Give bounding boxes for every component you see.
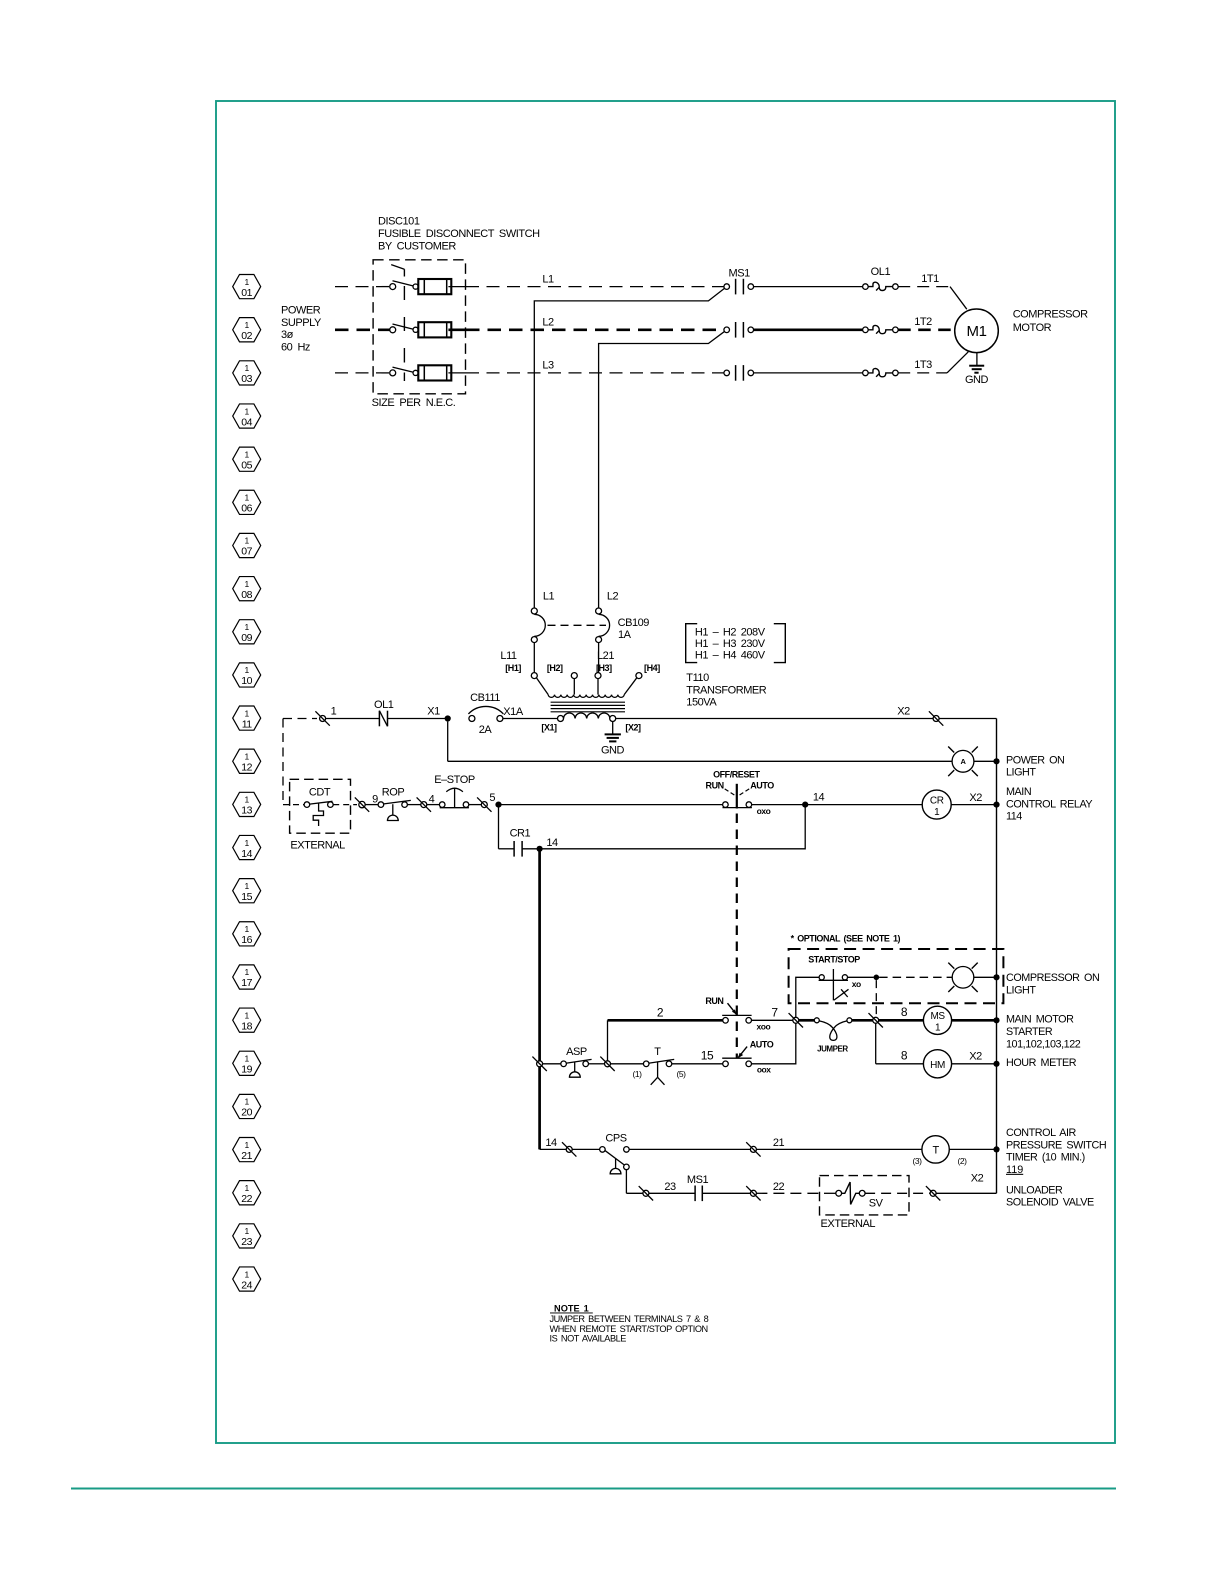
svg-text:03: 03 xyxy=(241,373,252,385)
wire MS1 coil to rail (bold) xyxy=(952,1019,997,1022)
svg-text:06: 06 xyxy=(241,503,252,515)
transformer T110 primary taps xyxy=(531,673,642,695)
wire MS1 aux to terminal 22 xyxy=(702,1192,750,1194)
wire row11 left entry (dashed) xyxy=(283,718,317,720)
node 1/16 line-number hexagon xyxy=(233,922,261,946)
circuit breaker CB111 xyxy=(468,692,503,736)
wire to CPS xyxy=(572,1148,599,1150)
svg-text:08: 08 xyxy=(241,589,252,601)
svg-text:13: 13 xyxy=(241,805,252,817)
svg-text:1: 1 xyxy=(245,449,250,459)
wire to external box (dashed) xyxy=(756,1192,822,1194)
svg-text:1: 1 xyxy=(331,705,337,717)
node row21 rail xyxy=(993,1146,999,1152)
svg-text:1: 1 xyxy=(245,924,250,934)
terminal 7 xyxy=(793,1017,799,1023)
wire to ROP xyxy=(365,804,378,806)
node 5 xyxy=(495,802,501,808)
node 1/15 line-number hexagon xyxy=(233,879,261,903)
label compressor motor xyxy=(1013,309,1088,335)
svg-text:14: 14 xyxy=(241,848,252,860)
wire terminal to rail row22 xyxy=(936,1192,996,1194)
node row19 rail xyxy=(993,1061,999,1067)
svg-text:L11: L11 xyxy=(500,650,517,662)
svg-text:POWER: POWER xyxy=(281,304,321,316)
node 1/07 line-number hexagon xyxy=(233,533,261,557)
wire CR1 to node xyxy=(522,848,540,850)
disconnect mechanical tie (dashed) xyxy=(403,269,405,381)
wire light to rail row17 xyxy=(974,976,997,978)
svg-text:8: 8 xyxy=(901,1048,908,1062)
wire tap L2 to transformer xyxy=(599,330,727,608)
jumper xyxy=(814,1018,852,1054)
disconnect blade L1 xyxy=(390,281,419,290)
svg-text:1: 1 xyxy=(245,967,250,977)
node 1/11 line-number hexagon xyxy=(233,706,261,730)
timer contact T xyxy=(632,1046,686,1085)
svg-text:1: 1 xyxy=(245,277,250,287)
wire selector to node 14 xyxy=(752,804,805,806)
contact MS1 aux (NO) xyxy=(687,1174,709,1201)
node 1/19 line-number hexagon xyxy=(233,1051,261,1075)
wire to HM coil xyxy=(876,1063,924,1065)
SV external box (dashed) xyxy=(820,1176,910,1215)
selector linkage (dashed) xyxy=(736,814,738,1059)
svg-text:1: 1 xyxy=(245,838,250,848)
svg-text:L1: L1 xyxy=(543,590,555,602)
selector contact AUTO (oox) xyxy=(722,1040,774,1075)
svg-text:START/STOP: START/STOP xyxy=(808,954,860,964)
wire to CR1 contact xyxy=(499,848,515,850)
svg-text:1: 1 xyxy=(245,751,250,761)
svg-text:E–STOP: E–STOP xyxy=(434,774,475,786)
label CB109 xyxy=(618,617,650,641)
label T110 transformer xyxy=(686,672,767,709)
svg-text:STARTER: STARTER xyxy=(1006,1026,1053,1038)
node 1/22 line-number hexagon xyxy=(233,1181,261,1205)
svg-text:24: 24 xyxy=(241,1279,252,1291)
svg-text:SUPPLY: SUPPLY xyxy=(281,317,322,329)
relay coil CR1 xyxy=(922,790,951,819)
svg-text:UNLOADER: UNLOADER xyxy=(1006,1184,1063,1196)
svg-text:X1A: X1A xyxy=(503,706,524,718)
node 1/21 line-number hexagon xyxy=(233,1138,261,1162)
svg-text:1: 1 xyxy=(245,881,250,891)
svg-text:AUTO: AUTO xyxy=(750,780,774,790)
svg-text:ROP: ROP xyxy=(382,787,405,799)
bold feeder from node 14 down xyxy=(538,849,541,1150)
node row12 rail xyxy=(993,758,999,764)
wire OL1 to X1 xyxy=(388,718,448,720)
label COMPRESSOR ON LIGHT xyxy=(1006,972,1099,996)
svg-text:GND: GND xyxy=(601,745,625,757)
svg-text:ASP: ASP xyxy=(566,1046,587,1058)
wire light to rail xyxy=(974,760,997,762)
motor M1 xyxy=(955,309,999,353)
terminal X2 row11 xyxy=(933,716,939,722)
svg-text:07: 07 xyxy=(241,546,252,558)
svg-text:20: 20 xyxy=(241,1107,252,1119)
wire L3 to MS1 (dashed) xyxy=(466,372,724,374)
solenoid SV xyxy=(824,1182,884,1209)
wire X1 node down to row12 xyxy=(447,722,449,762)
svg-text:LIGHT: LIGHT xyxy=(1006,767,1036,779)
fuse L3 xyxy=(418,365,466,380)
svg-text:MS1: MS1 xyxy=(687,1174,709,1186)
wire 1T1 slant into motor xyxy=(950,287,967,310)
label DISC101 fusible disconnect switch xyxy=(378,216,540,253)
svg-text:1: 1 xyxy=(245,1183,250,1193)
wire to terminal 23 xyxy=(626,1192,643,1194)
wire CPS lower throw down xyxy=(625,1170,627,1193)
wire to MS1 aux contact xyxy=(649,1192,695,1194)
terminal node before MS coil xyxy=(873,1017,879,1023)
pilot light power-on xyxy=(952,750,974,772)
svg-text:RUN: RUN xyxy=(706,780,724,790)
disconnect blade L2 xyxy=(390,324,419,333)
svg-text:AUTO: AUTO xyxy=(750,1040,774,1050)
svg-text:1A: 1A xyxy=(618,629,632,641)
svg-text:RUN: RUN xyxy=(705,996,723,1006)
wire 1T1 (dashed) xyxy=(898,286,950,288)
svg-text:MOTOR: MOTOR xyxy=(1013,322,1052,334)
svg-text:10: 10 xyxy=(241,675,252,687)
wire to timer contact xyxy=(611,1063,647,1065)
svg-text:7: 7 xyxy=(771,1005,778,1019)
svg-text:114: 114 xyxy=(1006,811,1022,823)
node 14 seal xyxy=(537,846,543,852)
terminal 9 xyxy=(355,793,378,812)
svg-text:2: 2 xyxy=(657,1006,664,1020)
wire to MS1 coil (bold) xyxy=(879,1019,924,1022)
wire HM to rail xyxy=(952,1063,997,1065)
terminal 5 xyxy=(477,792,495,812)
svg-text:HOUR METER: HOUR METER xyxy=(1006,1057,1077,1069)
node 1/05 line-number hexagon xyxy=(233,447,261,471)
wire HM branch riser xyxy=(875,1023,877,1064)
circuit breaker CB109 pole at x=534.3 xyxy=(531,608,545,673)
wire L1 to MS1 (dashed) xyxy=(466,286,724,288)
node 1/06 line-number hexagon xyxy=(233,490,261,514)
svg-text:X2: X2 xyxy=(971,1173,984,1185)
node row17 rail xyxy=(993,974,999,980)
svg-text:04: 04 xyxy=(241,416,252,428)
overload OL1 heater L1 xyxy=(863,266,899,290)
wire node14 to CR coil xyxy=(805,804,922,806)
wire timer coil to rail xyxy=(949,1148,996,1150)
wire L2 to MS1 (dashed) xyxy=(466,328,724,331)
wire tap L1 to transformer xyxy=(534,287,726,608)
wire CB111 to transformer X1 xyxy=(503,718,558,720)
wire row11-13 left riser (dashed) xyxy=(282,719,284,805)
svg-text:X2: X2 xyxy=(969,792,982,804)
wire AUTO up to node7 xyxy=(752,1023,796,1064)
svg-text:11: 11 xyxy=(242,718,253,730)
optional box (dashed) xyxy=(789,949,1004,1003)
svg-text:MS: MS xyxy=(930,1011,945,1022)
terminal 21 xyxy=(750,1146,756,1152)
svg-text:[H2]: [H2] xyxy=(547,663,563,673)
node row13 rail xyxy=(993,802,999,808)
circuit breaker CB109 pole at x=598.6 xyxy=(596,608,610,673)
starter coil MS1 xyxy=(923,1006,951,1034)
wire seal to node14 riser xyxy=(540,805,806,849)
svg-text:xoo: xoo xyxy=(757,1021,771,1031)
svg-text:1: 1 xyxy=(245,795,250,805)
svg-text:1: 1 xyxy=(245,320,250,330)
pushbutton E-STOP (NC) xyxy=(434,774,475,808)
svg-text:MS1: MS1 xyxy=(729,267,751,279)
svg-text:TRANSFORMER: TRANSFORMER xyxy=(686,684,767,696)
wire L1 supply dashes xyxy=(335,286,390,288)
voltage tap table xyxy=(686,624,786,663)
pressure switch ASP xyxy=(561,1046,592,1077)
note 1 text xyxy=(550,1304,709,1344)
svg-text:21: 21 xyxy=(241,1150,252,1162)
svg-text:(5): (5) xyxy=(676,1069,686,1079)
svg-text:oox: oox xyxy=(757,1065,771,1075)
svg-text:1T3: 1T3 xyxy=(914,359,932,371)
wire 1T3 slant into motor xyxy=(947,352,968,373)
svg-text:101,102,103,122: 101,102,103,122 xyxy=(1006,1038,1081,1050)
svg-text:12: 12 xyxy=(241,761,252,773)
svg-text:60 Hz: 60 Hz xyxy=(281,342,310,354)
node X1 xyxy=(445,715,451,721)
wire to timer coil xyxy=(756,1148,922,1150)
svg-text:CONTROL AIR: CONTROL AIR xyxy=(1006,1127,1076,1139)
overload OL1 heater L2 xyxy=(863,325,899,333)
svg-text:CB111: CB111 xyxy=(470,692,500,704)
wire node down to row18 (dashed) xyxy=(875,980,877,1017)
svg-text:1: 1 xyxy=(245,622,250,632)
svg-text:(3): (3) xyxy=(912,1156,922,1166)
svg-text:L2: L2 xyxy=(542,317,554,329)
svg-text:1: 1 xyxy=(245,1054,250,1064)
contactor MS1 power contact L3 xyxy=(724,365,863,381)
svg-text:(2): (2) xyxy=(957,1156,967,1166)
wire to ASP xyxy=(543,1063,561,1065)
wire timer to AUTO xyxy=(672,1063,723,1065)
node 1/14 line-number hexagon xyxy=(233,835,261,859)
svg-text:PRESSURE SWITCH: PRESSURE SWITCH xyxy=(1006,1139,1106,1151)
wire RUN to terminal 7 xyxy=(752,1019,793,1021)
svg-text:09: 09 xyxy=(241,632,252,644)
svg-text:1: 1 xyxy=(245,363,250,373)
svg-text:FUSIBLE DISCONNECT SWITCH: FUSIBLE DISCONNECT SWITCH xyxy=(378,228,540,240)
label MAIN CONTROL RELAY 114 xyxy=(1006,786,1092,822)
terminal 23 xyxy=(643,1190,649,1196)
wire to OL1 contact xyxy=(326,718,380,720)
wire ASP to terminal xyxy=(589,1063,605,1065)
svg-text:BY CUSTOMER: BY CUSTOMER xyxy=(378,240,456,252)
svg-text:02: 02 xyxy=(241,330,252,342)
node row18 rail xyxy=(993,1017,999,1023)
node 1/17 line-number hexagon xyxy=(233,965,261,989)
svg-text:L21: L21 xyxy=(597,650,614,662)
svg-text:2A: 2A xyxy=(479,724,493,736)
svg-text:21: 21 xyxy=(773,1137,785,1149)
terminal 22 xyxy=(750,1190,756,1196)
node 1/10 line-number hexagon xyxy=(233,663,261,687)
terminal 2-branch xyxy=(605,1061,611,1067)
wire L2 supply dashes xyxy=(335,328,390,331)
svg-text:JUMPER BETWEEN TERMINALS 7 & 8: JUMPER BETWEEN TERMINALS 7 & 8 xyxy=(550,1314,709,1324)
svg-text:OL1: OL1 xyxy=(871,266,891,278)
pressure switch CPS xyxy=(600,1133,630,1174)
svg-text:IS NOT AVAILABLE: IS NOT AVAILABLE xyxy=(550,1334,627,1344)
svg-text:L2: L2 xyxy=(607,590,619,602)
temperature switch CDT xyxy=(304,787,333,826)
footer separator line xyxy=(71,1488,1116,1490)
terminal 14 row21 xyxy=(566,1146,572,1152)
svg-text:COMPRESSOR ON: COMPRESSOR ON xyxy=(1006,972,1099,984)
svg-text:1T1: 1T1 xyxy=(921,273,939,285)
label power supply xyxy=(281,304,322,353)
svg-text:1: 1 xyxy=(245,1269,250,1279)
svg-text:14: 14 xyxy=(813,792,825,804)
svg-text:TIMER (10 MIN.): TIMER (10 MIN.) xyxy=(1006,1152,1085,1164)
node 1/12 line-number hexagon xyxy=(233,749,261,773)
node 1/08 line-number hexagon xyxy=(233,577,261,601)
CDT external box (dashed) xyxy=(290,779,351,833)
label POWER ON LIGHT xyxy=(1006,754,1064,778)
node 14 xyxy=(802,802,808,808)
svg-text:CONTROL RELAY: CONTROL RELAY xyxy=(1006,798,1092,810)
svg-text:1T2: 1T2 xyxy=(914,316,932,328)
svg-text:1: 1 xyxy=(245,1010,250,1020)
svg-text:X1: X1 xyxy=(427,706,440,718)
ground at motor xyxy=(965,353,989,387)
svg-text:JUMPER: JUMPER xyxy=(817,1044,848,1053)
svg-text:19: 19 xyxy=(241,1064,252,1076)
svg-text:1: 1 xyxy=(245,1140,250,1150)
fuse L2 xyxy=(418,322,466,337)
node 1/02 line-number hexagon xyxy=(233,318,261,342)
svg-text:POWER ON: POWER ON xyxy=(1006,754,1064,766)
contactor MS1 power contact L1 xyxy=(724,267,863,294)
relay contact CR1 (NO) xyxy=(510,828,531,857)
disconnect blade L3 xyxy=(390,367,419,376)
svg-text:4: 4 xyxy=(429,793,435,805)
svg-text:X2: X2 xyxy=(897,706,910,718)
svg-text:H1 – H4 460V: H1 – H4 460V xyxy=(695,650,766,662)
wire node5 down to row14 xyxy=(498,805,500,849)
label MAIN MOTOR STARTER xyxy=(1006,1014,1081,1051)
svg-text:05: 05 xyxy=(241,459,252,471)
svg-text:23: 23 xyxy=(664,1181,676,1193)
wire terminal7 to jumper xyxy=(799,1019,814,1022)
svg-text:[H1]: [H1] xyxy=(505,663,521,673)
node 1/23 line-number hexagon xyxy=(233,1224,261,1248)
svg-text:22: 22 xyxy=(773,1181,785,1193)
svg-text:T110: T110 xyxy=(686,672,709,684)
svg-text:MAIN MOTOR: MAIN MOTOR xyxy=(1006,1014,1074,1026)
svg-text:14: 14 xyxy=(545,1137,557,1149)
svg-text:oxo: oxo xyxy=(757,806,771,816)
svg-text:SOLENOID VALVE: SOLENOID VALVE xyxy=(1006,1197,1094,1209)
terminal 4 xyxy=(417,793,435,812)
transformer T110 primary winding xyxy=(548,695,624,698)
overload OL1 heater L3 xyxy=(863,369,899,377)
svg-text:15: 15 xyxy=(701,1049,714,1063)
node 1/09 line-number hexagon xyxy=(233,620,261,644)
svg-text:T: T xyxy=(932,1145,939,1157)
svg-text:WHEN REMOTE START/STOP OPTION: WHEN REMOTE START/STOP OPTION xyxy=(550,1324,708,1334)
svg-text:CPS: CPS xyxy=(605,1133,626,1145)
label UNLOADER SOLENOID VALVE xyxy=(1006,1184,1094,1208)
svg-text:SV: SV xyxy=(869,1197,884,1209)
svg-text:OFF/RESET: OFF/RESET xyxy=(713,770,760,780)
svg-text:14: 14 xyxy=(546,837,558,849)
svg-text:X2: X2 xyxy=(969,1051,982,1063)
svg-text:EXTERNAL: EXTERNAL xyxy=(290,840,345,852)
wire 1T2 (dashed) xyxy=(898,328,955,331)
node 1/01 line-number hexagon xyxy=(233,275,261,299)
svg-text:3ø: 3ø xyxy=(281,329,294,341)
svg-text:T: T xyxy=(654,1046,661,1058)
wire start/stop to node xyxy=(848,976,874,978)
wire jumper to terminal 8-node xyxy=(852,1019,873,1022)
svg-text:[X2]: [X2] xyxy=(625,723,641,733)
svg-text:NOTE 1: NOTE 1 xyxy=(550,1304,593,1314)
wire feeder corner to terminal 14 xyxy=(540,1148,567,1150)
transformer T110 secondary winding xyxy=(558,713,616,722)
wire CDT to terminal 9 (dashed) xyxy=(333,804,357,806)
svg-text:18: 18 xyxy=(241,1020,252,1032)
node 1/13 line-number hexagon xyxy=(233,792,261,816)
node 1/04 line-number hexagon xyxy=(233,404,261,428)
svg-text:01: 01 xyxy=(241,287,252,299)
svg-text:9: 9 xyxy=(372,793,378,805)
wire CR coil to rail xyxy=(951,804,996,806)
overload contact OL1 (NC) xyxy=(374,699,394,726)
svg-text:H1 – H3 230V: H1 – H3 230V xyxy=(695,638,766,650)
node 1/24 line-number hexagon xyxy=(233,1267,261,1291)
svg-text:22: 22 xyxy=(241,1193,252,1205)
svg-text:MAIN: MAIN xyxy=(1006,786,1031,798)
svg-text:M1: M1 xyxy=(967,323,987,340)
svg-text:119: 119 xyxy=(1006,1164,1023,1176)
wire node7 riser to start/stop xyxy=(796,977,819,1020)
svg-text:1: 1 xyxy=(935,1023,941,1034)
transformer T110 core xyxy=(551,702,625,712)
pushbutton START/STOP xyxy=(819,969,861,1000)
svg-text:5: 5 xyxy=(489,792,495,804)
svg-text:(1): (1) xyxy=(632,1069,642,1079)
wire into CDT box (dashed) xyxy=(283,804,304,806)
svg-text:* OPTIONAL (SEE NOTE 1): * OPTIONAL (SEE NOTE 1) xyxy=(791,933,901,943)
node 1/20 line-number hexagon xyxy=(233,1094,261,1118)
timer coil T xyxy=(912,1136,967,1166)
wire CPS to terminal 21 xyxy=(629,1148,750,1150)
wire row12 to light xyxy=(448,760,952,762)
svg-text:1: 1 xyxy=(245,493,250,503)
svg-text:COMPRESSOR: COMPRESSOR xyxy=(1013,309,1088,321)
svg-text:1: 1 xyxy=(245,1226,250,1236)
disconnect switch enclosure (dashed box) xyxy=(373,260,465,394)
svg-text:1: 1 xyxy=(245,579,250,589)
svg-text:GND: GND xyxy=(965,374,989,386)
svg-text:LIGHT: LIGHT xyxy=(1006,984,1036,996)
svg-text:L1: L1 xyxy=(542,273,554,285)
ground at transformer X2 xyxy=(601,722,625,757)
pilot light compressor-on xyxy=(952,967,974,989)
svg-text:16: 16 xyxy=(241,934,252,946)
svg-text:15: 15 xyxy=(241,891,252,903)
svg-text:H1 – H2 208V: H1 – H2 208V xyxy=(695,627,766,639)
terminal 1 xyxy=(315,705,336,725)
svg-text:1: 1 xyxy=(245,536,250,546)
